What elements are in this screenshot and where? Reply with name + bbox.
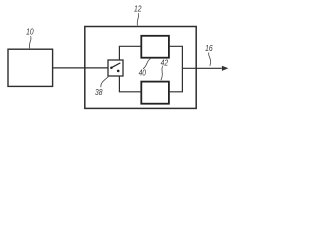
svg-text:40: 40	[139, 68, 147, 78]
svg-text:42: 42	[161, 58, 169, 68]
svg-text:10: 10	[26, 27, 34, 37]
svg-text:16: 16	[205, 43, 213, 53]
svg-text:38: 38	[95, 87, 103, 97]
svg-text:12: 12	[134, 4, 142, 14]
